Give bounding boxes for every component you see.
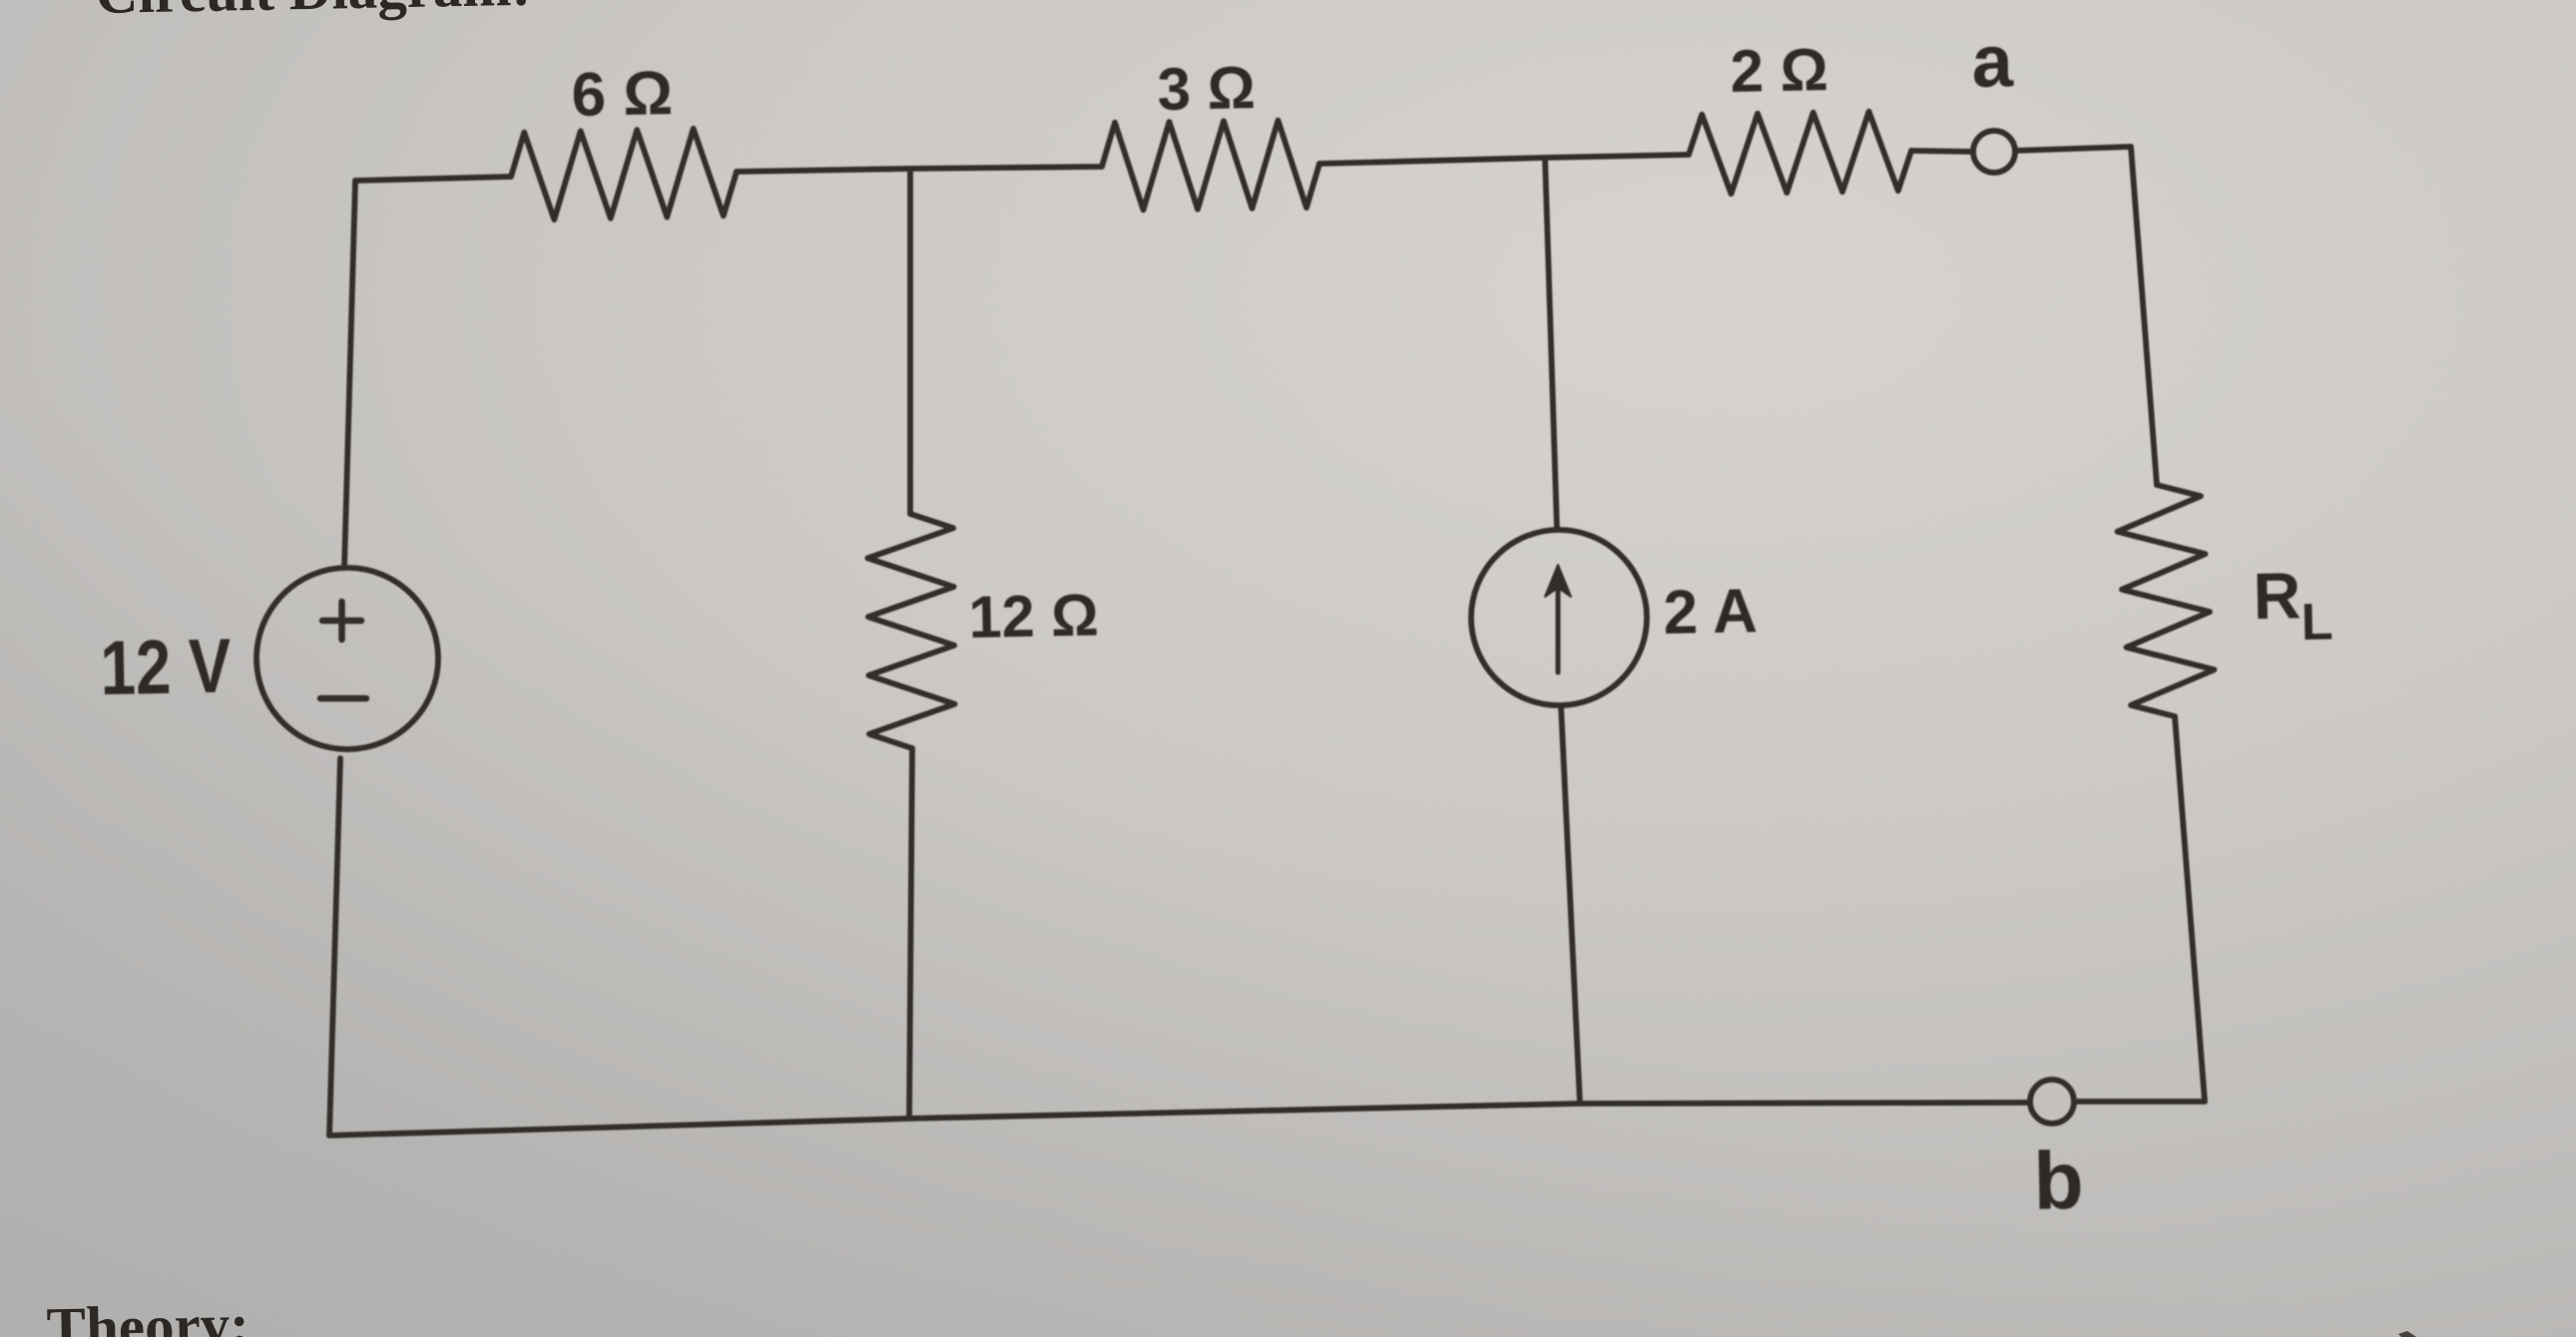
wire RL to bottom-right corner xyxy=(2175,716,2205,1102)
wire source to top-left corner xyxy=(344,181,355,568)
svg-text:3 Ω: 3 Ω xyxy=(1157,54,1256,123)
terminal a xyxy=(1973,131,2015,173)
wire node-2 down to current source xyxy=(1545,158,1557,530)
arrow of current source xyxy=(1556,584,1561,672)
terminal b xyxy=(2030,1080,2074,1123)
minus sign of V1 xyxy=(320,695,366,702)
wire 6-ohm to node-1 to 3-ohm xyxy=(737,167,1102,172)
wire right rail down to RL xyxy=(2131,147,2157,485)
wire left rail bottom up to source xyxy=(329,758,340,1135)
resistor R 12 ohm xyxy=(867,514,954,748)
wire 3-ohm to node-2 to 2-ohm xyxy=(1319,155,1689,164)
plus sign of V1 xyxy=(322,602,361,640)
resistor R 3 ohm xyxy=(1102,121,1319,211)
resistor R 2 ohm xyxy=(1689,112,1911,194)
stray pen mark bottom right xyxy=(2398,1331,2416,1337)
wire 12-ohm down to bottom wire xyxy=(909,748,912,1118)
wire current source down to bottom wire xyxy=(1561,705,1580,1104)
wire top-left corner to 6-ohm xyxy=(355,177,511,181)
resistor RL xyxy=(2118,485,2215,716)
svg-text:6 Ω: 6 Ω xyxy=(571,59,674,130)
wire 2-ohm to terminal a xyxy=(1911,151,1973,152)
svg-text:12 Ω: 12 Ω xyxy=(968,583,1099,651)
wire bottom-right corner to terminal b xyxy=(2074,1099,2205,1105)
wire terminal b to bottom-left corner xyxy=(329,1103,2030,1135)
svg-text:Theory:: Theory: xyxy=(46,1291,250,1337)
wire terminal a to top-right corner xyxy=(2015,147,2131,151)
resistor R 6 ohm xyxy=(511,129,737,220)
svg-text:2 Ω: 2 Ω xyxy=(1730,36,1828,105)
current source I1 2 A xyxy=(1471,530,1647,705)
svg-text:12 V: 12 V xyxy=(100,623,233,710)
wire node-1 down to 12-ohm xyxy=(907,169,913,514)
svg-text:2 A: 2 A xyxy=(1663,577,1758,648)
arrow head xyxy=(1545,565,1571,597)
svg-text:a: a xyxy=(1971,19,2015,103)
svg-text:b: b xyxy=(2033,1135,2085,1227)
voltage source V1 12 V xyxy=(257,568,438,749)
